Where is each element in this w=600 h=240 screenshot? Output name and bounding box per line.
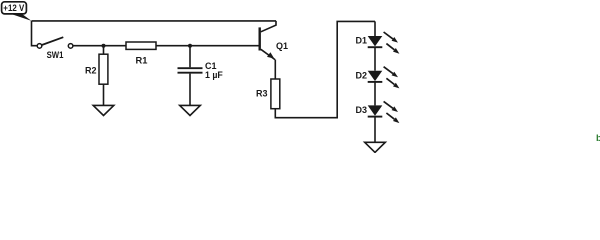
svg-text:R2: R2 (85, 66, 97, 76)
ground under LED chain (365, 142, 386, 152)
wire D1 to D2 (374, 47, 376, 70)
wire top rail from +12V node to Q1 collector (32, 20, 277, 22)
svg-text:1 µF: 1 µF (205, 70, 223, 80)
svg-text:SW1: SW1 (47, 50, 64, 60)
svg-text:R1: R1 (136, 55, 148, 65)
svg-text:D3: D3 (355, 105, 367, 115)
wire D3 to ground (374, 117, 376, 143)
wire R3 bottom to LED chain top (275, 21, 375, 117)
resistor R2 (85, 46, 108, 106)
svg-text:Q1: Q1 (276, 41, 288, 51)
svg-text:D2: D2 (355, 70, 367, 80)
capacitor C1 1 µF (178, 46, 224, 106)
resistor R1 (126, 42, 156, 65)
LED D2 (355, 67, 399, 89)
LED D1 (355, 32, 399, 54)
node junction at R2 (102, 44, 106, 48)
power flag +12 V (2, 2, 32, 21)
switch SW1 (37, 37, 73, 60)
wire SW1 to R1 (73, 45, 126, 47)
ground under R2 (93, 105, 114, 115)
svg-text:+12 V: +12 V (3, 3, 24, 14)
svg-text:D1: D1 (355, 36, 367, 46)
svg-text:b: b (596, 133, 600, 144)
wire D2 to D3 (374, 82, 376, 106)
wire from +12V node down to SW1 (32, 21, 38, 46)
svg-text:R3: R3 (256, 88, 268, 98)
node junction at C1 (188, 44, 192, 48)
wire Q1 emitter to R3 (274, 60, 276, 79)
transistor Q1 (NPN) (260, 21, 288, 60)
wire into D1 (374, 21, 376, 36)
LED D3 (355, 101, 399, 123)
wire R1 to Q1 base (156, 45, 260, 47)
ground under C1 (180, 105, 201, 115)
resistor R3 (256, 79, 280, 109)
